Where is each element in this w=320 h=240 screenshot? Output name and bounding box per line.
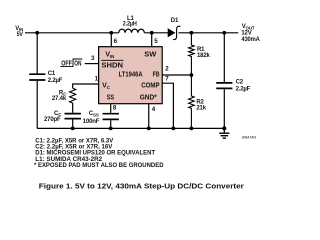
svg-text:LT1946A: LT1946A [119,72,143,79]
svg-text:430mA: 430mA [241,37,260,43]
node junction pin5 [150,31,154,35]
node VIN input label [15,26,23,38]
svg-text:C1: C1 [48,71,56,77]
svg-text:VOUT: VOUT [242,24,255,30]
svg-text:ON: ON [74,61,81,68]
wire FB pin 2 [162,74,191,76]
svg-text:182k: 182k [197,53,210,59]
svg-text:27.4k: 27.4k [52,96,67,102]
svg-text:6: 6 [114,38,118,45]
notes text block [34,137,164,169]
wire pin 6 stub [110,33,112,47]
svg-text:SS: SS [107,94,115,101]
node junction R1 top [190,31,194,35]
wire top rail from VIN to inductor [25,32,119,34]
wire GND pin 4 stub [148,104,150,129]
svg-text:C2: C2 [236,80,244,86]
capacitor CSS [83,111,119,128]
svg-text:3: 3 [91,55,95,62]
svg-text:SS: SS [93,112,99,117]
node junction VIN/C1 [35,31,39,35]
wire bottom ground rail [37,127,224,129]
svg-text:2: 2 [165,66,169,73]
wire RC to CC [72,103,74,113]
svg-text:2.2µF: 2.2µF [48,78,63,84]
diode D1 schottky [168,18,180,40]
svg-text:5: 5 [154,38,158,45]
svg-text:* EXPOSED PAD MUST ALSO BE GRO: * EXPOSED PAD MUST ALSO BE GROUNDED [34,162,164,169]
capacitor C2 [216,33,250,129]
svg-text:5V: 5V [17,32,23,38]
resistor R1 [189,33,211,75]
wire SHDN pin 3 [85,63,99,65]
svg-text:VIN: VIN [15,26,23,32]
node junction FB divider [190,73,194,77]
node junction pin6 [109,31,113,35]
svg-text:4: 4 [152,106,156,113]
node junction COMP/rail [172,126,176,130]
svg-text:2.2µF: 2.2µF [236,86,251,92]
svg-text:R2: R2 [196,99,204,105]
svg-text:D1: D1 [171,18,179,24]
node junction GND pin/rail [147,126,151,130]
svg-text:2.2µH: 2.2µH [123,21,137,27]
svg-text:100nF: 100nF [83,119,100,125]
svg-text:12V: 12V [241,31,251,37]
svg-text:GND*: GND* [140,94,157,101]
inductor L1 [119,16,145,33]
resistor RC [52,88,76,103]
capacitor CC [44,111,81,129]
svg-text:SW: SW [144,52,156,59]
node junction CC/rail [71,126,75,130]
svg-text:COMP: COMP [141,83,160,90]
node junction C2 top [222,31,226,35]
node VOUT output label [241,24,260,43]
svg-text:7: 7 [165,75,169,82]
node junction CSS/rail [109,126,113,130]
ground symbol [219,128,229,138]
svg-text:R1: R1 [197,47,205,53]
svg-text:FB: FB [153,72,160,79]
capacitor C1 [29,33,63,129]
svg-text:270pF: 270pF [44,117,61,123]
IC U1 LT1946A [99,47,163,104]
switch label OFF/ON [60,59,82,68]
svg-text:Figure 1. 5V to 12V, 430mA Ste: Figure 1. 5V to 12V, 430mA Step-Up DC/DC… [39,182,244,191]
wire inductor to diode [144,32,168,34]
svg-text:SHDN: SHDN [101,62,123,69]
node junction C2/ground [222,126,226,130]
svg-text:1946A TA01: 1946A TA01 [242,135,257,139]
node junction R2/rail [190,126,194,130]
wire COMP pin 7 [162,83,173,128]
wire diode to VOUT [179,32,239,34]
wire SS pin 8 stub [110,104,112,113]
svg-text:21k: 21k [196,106,206,112]
wire VC pin 1 [73,84,99,88]
resistor R2 [189,75,207,128]
wire pin 5 stub [151,33,153,47]
svg-text:8: 8 [113,104,117,111]
